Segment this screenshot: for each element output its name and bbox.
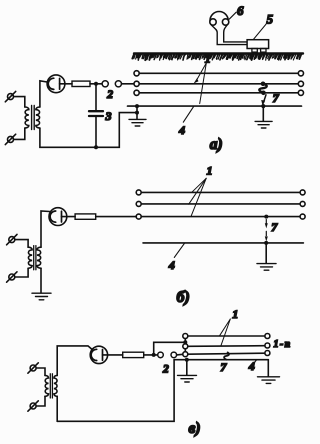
- node on line 4 left (fig v): [185, 358, 189, 362]
- wire resistor to line wire 3: [96, 216, 136, 218]
- headphones 6: [210, 12, 247, 45]
- line wire 3 (fig a): [134, 90, 304, 95]
- wire: [14, 97, 25, 107]
- label 4 leader (fig b): [174, 243, 184, 257]
- junction node after resistor: [152, 353, 156, 357]
- resistor (fig v): [123, 352, 144, 357]
- transformer secondary bottom ground lead: [40, 268, 42, 293]
- svg-text:5: 5: [267, 11, 274, 26]
- svg-text:7: 7: [273, 91, 280, 105]
- transformer T1 secondary winding: [36, 107, 40, 128]
- ground lead left (fig a): [136, 113, 138, 119]
- label 4 leader (fig a): [183, 107, 193, 123]
- generator tube U3 (fig v): [90, 346, 107, 363]
- capacitor 3 plates: [89, 111, 103, 116]
- node on wire 3: [261, 91, 266, 96]
- ground lead right (fig a): [262, 106, 264, 121]
- svg-text:7: 7: [220, 360, 227, 374]
- line wire 2 (fig a): [134, 81, 304, 86]
- terminal input bottom (fig v): [28, 401, 38, 411]
- svg-text:7: 7: [271, 220, 278, 234]
- label 1 leaders (fig b): [189, 178, 207, 216]
- transformer secondary bottom lead (fig v): [56, 396, 58, 421]
- label 1 second leader: [200, 63, 207, 104]
- svg-text:1-n: 1-n: [274, 339, 292, 350]
- connector 2 right contact: [115, 81, 121, 87]
- wire: [36, 396, 45, 406]
- ground symbol left (fig a): [129, 119, 146, 126]
- generator tube U2 (fig b): [49, 208, 67, 226]
- terminal input top (fig v): [28, 363, 38, 373]
- wire: [90, 83, 102, 85]
- line wire 1 (fig v): [183, 334, 270, 339]
- connector 2 right contact (fig v): [171, 352, 177, 358]
- transformer T3 primary winding: [45, 375, 49, 396]
- induced voltage dashed arrow 7: [265, 220, 268, 242]
- line wire 1 (fig b): [136, 190, 305, 195]
- svg-text:в): в): [189, 420, 201, 437]
- branch wire up to bus: [154, 342, 184, 355]
- transformer T2 primary winding: [28, 247, 32, 268]
- transformer T2 core: [34, 246, 36, 270]
- line 4 rail (fig a): [128, 105, 302, 107]
- wire secondary top to tube: [40, 81, 47, 107]
- wire tube to resistor: [108, 354, 123, 356]
- terminal input bottom (fig a): [5, 134, 15, 144]
- generator tube U1 (fig a): [47, 75, 65, 93]
- wire: [15, 268, 28, 277]
- node on line 4 right: [261, 104, 265, 108]
- svg-text:4: 4: [168, 258, 175, 272]
- line 4 rail (fig v): [174, 359, 268, 361]
- svg-text:2: 2: [106, 89, 113, 101]
- transformer T3 secondary winding: [54, 375, 57, 396]
- ground symbol (fig v left): [178, 375, 197, 382]
- terminal bus vertical: [184, 339, 186, 352]
- label 1 leaders (fig v): [220, 319, 231, 346]
- junction node: [94, 82, 98, 86]
- discharge arrow wire3 to line4: [261, 95, 266, 106]
- line wire 2 (fig v): [183, 343, 270, 349]
- line 4 right drop (fig v): [267, 360, 269, 377]
- connector 2 left contact: [102, 81, 108, 87]
- label 6 leader: [229, 12, 236, 19]
- svg-text:1: 1: [207, 163, 213, 177]
- label 5 leader: [254, 24, 266, 39]
- capacitor 3 top lead: [95, 84, 97, 111]
- wire: [15, 240, 28, 248]
- bottom return wire (fig a): [40, 113, 137, 148]
- svg-text:6: 6: [237, 3, 244, 18]
- transformer T2 secondary winding: [37, 247, 41, 268]
- line wire 3 (fig b): [136, 214, 305, 219]
- junction node: [135, 111, 139, 115]
- label 1 leader with arrowhead: [194, 63, 207, 84]
- ground symbol right (fig a): [255, 121, 272, 128]
- terminal input bottom (fig b): [7, 272, 17, 282]
- node on wire 3 (fig b): [264, 215, 268, 219]
- ground symbol (fig b left): [32, 293, 51, 300]
- wire: [14, 128, 25, 139]
- transformer T1 core: [32, 106, 35, 130]
- resistor (fig a): [72, 81, 90, 86]
- node on line 4 (fig b): [264, 241, 268, 245]
- resistor (fig b): [75, 214, 96, 219]
- terminal input top (fig b): [7, 234, 17, 244]
- svg-text:4: 4: [178, 123, 185, 137]
- junction node on line 4: [135, 104, 139, 108]
- terminal input top (fig a): [5, 91, 15, 101]
- svg-text:4: 4: [248, 359, 255, 373]
- svg-text:а): а): [210, 136, 223, 153]
- ground lead (fig b right): [265, 243, 267, 263]
- line wire 1 (fig a): [134, 71, 304, 76]
- junction node bottom: [94, 145, 98, 149]
- bottom return wire (fig v): [57, 360, 174, 422]
- wire connector to line terminal: [122, 83, 134, 85]
- line wire 2 (fig b): [136, 201, 305, 206]
- svg-text:3: 3: [105, 109, 112, 123]
- line wire 3 (fig v): [183, 351, 270, 357]
- svg-text:2: 2: [162, 364, 169, 376]
- wire secondary top to tube (fig v): [57, 346, 92, 376]
- bus junction node: [183, 340, 187, 344]
- connector 2 left contact (fig v): [158, 352, 164, 358]
- wire tube to resistor: [67, 216, 75, 218]
- transformer T3 core: [50, 374, 52, 398]
- label 4 leader tick (fig v): [254, 360, 257, 364]
- discharge zigzag wire2 to wire3: [259, 84, 266, 93]
- earth surface line: [134, 52, 303, 54]
- wire tube to resistor: [65, 83, 72, 85]
- line 4 rail (fig b): [143, 242, 303, 244]
- ground lead (fig v left): [186, 360, 188, 375]
- wire: [36, 368, 45, 375]
- device box 5: [247, 40, 269, 52]
- ground symbol (fig b right): [257, 264, 276, 271]
- wire secondary top to tube (fig b): [41, 211, 50, 247]
- transformer T1 primary winding: [25, 107, 29, 128]
- wire connector to wire3 terminal: [177, 353, 183, 356]
- wire to line 4: [136, 106, 138, 113]
- svg-text:б): б): [177, 289, 190, 306]
- capacitor 3 bottom lead: [95, 117, 97, 147]
- wire: [144, 354, 158, 356]
- ground symbol (fig v right): [258, 377, 280, 384]
- earth hatching: [132, 54, 301, 60]
- node on wire 2: [261, 82, 266, 87]
- svg-text:1: 1: [232, 307, 238, 321]
- discharge zigzag wire3 to line4 (fig v): [224, 352, 229, 359]
